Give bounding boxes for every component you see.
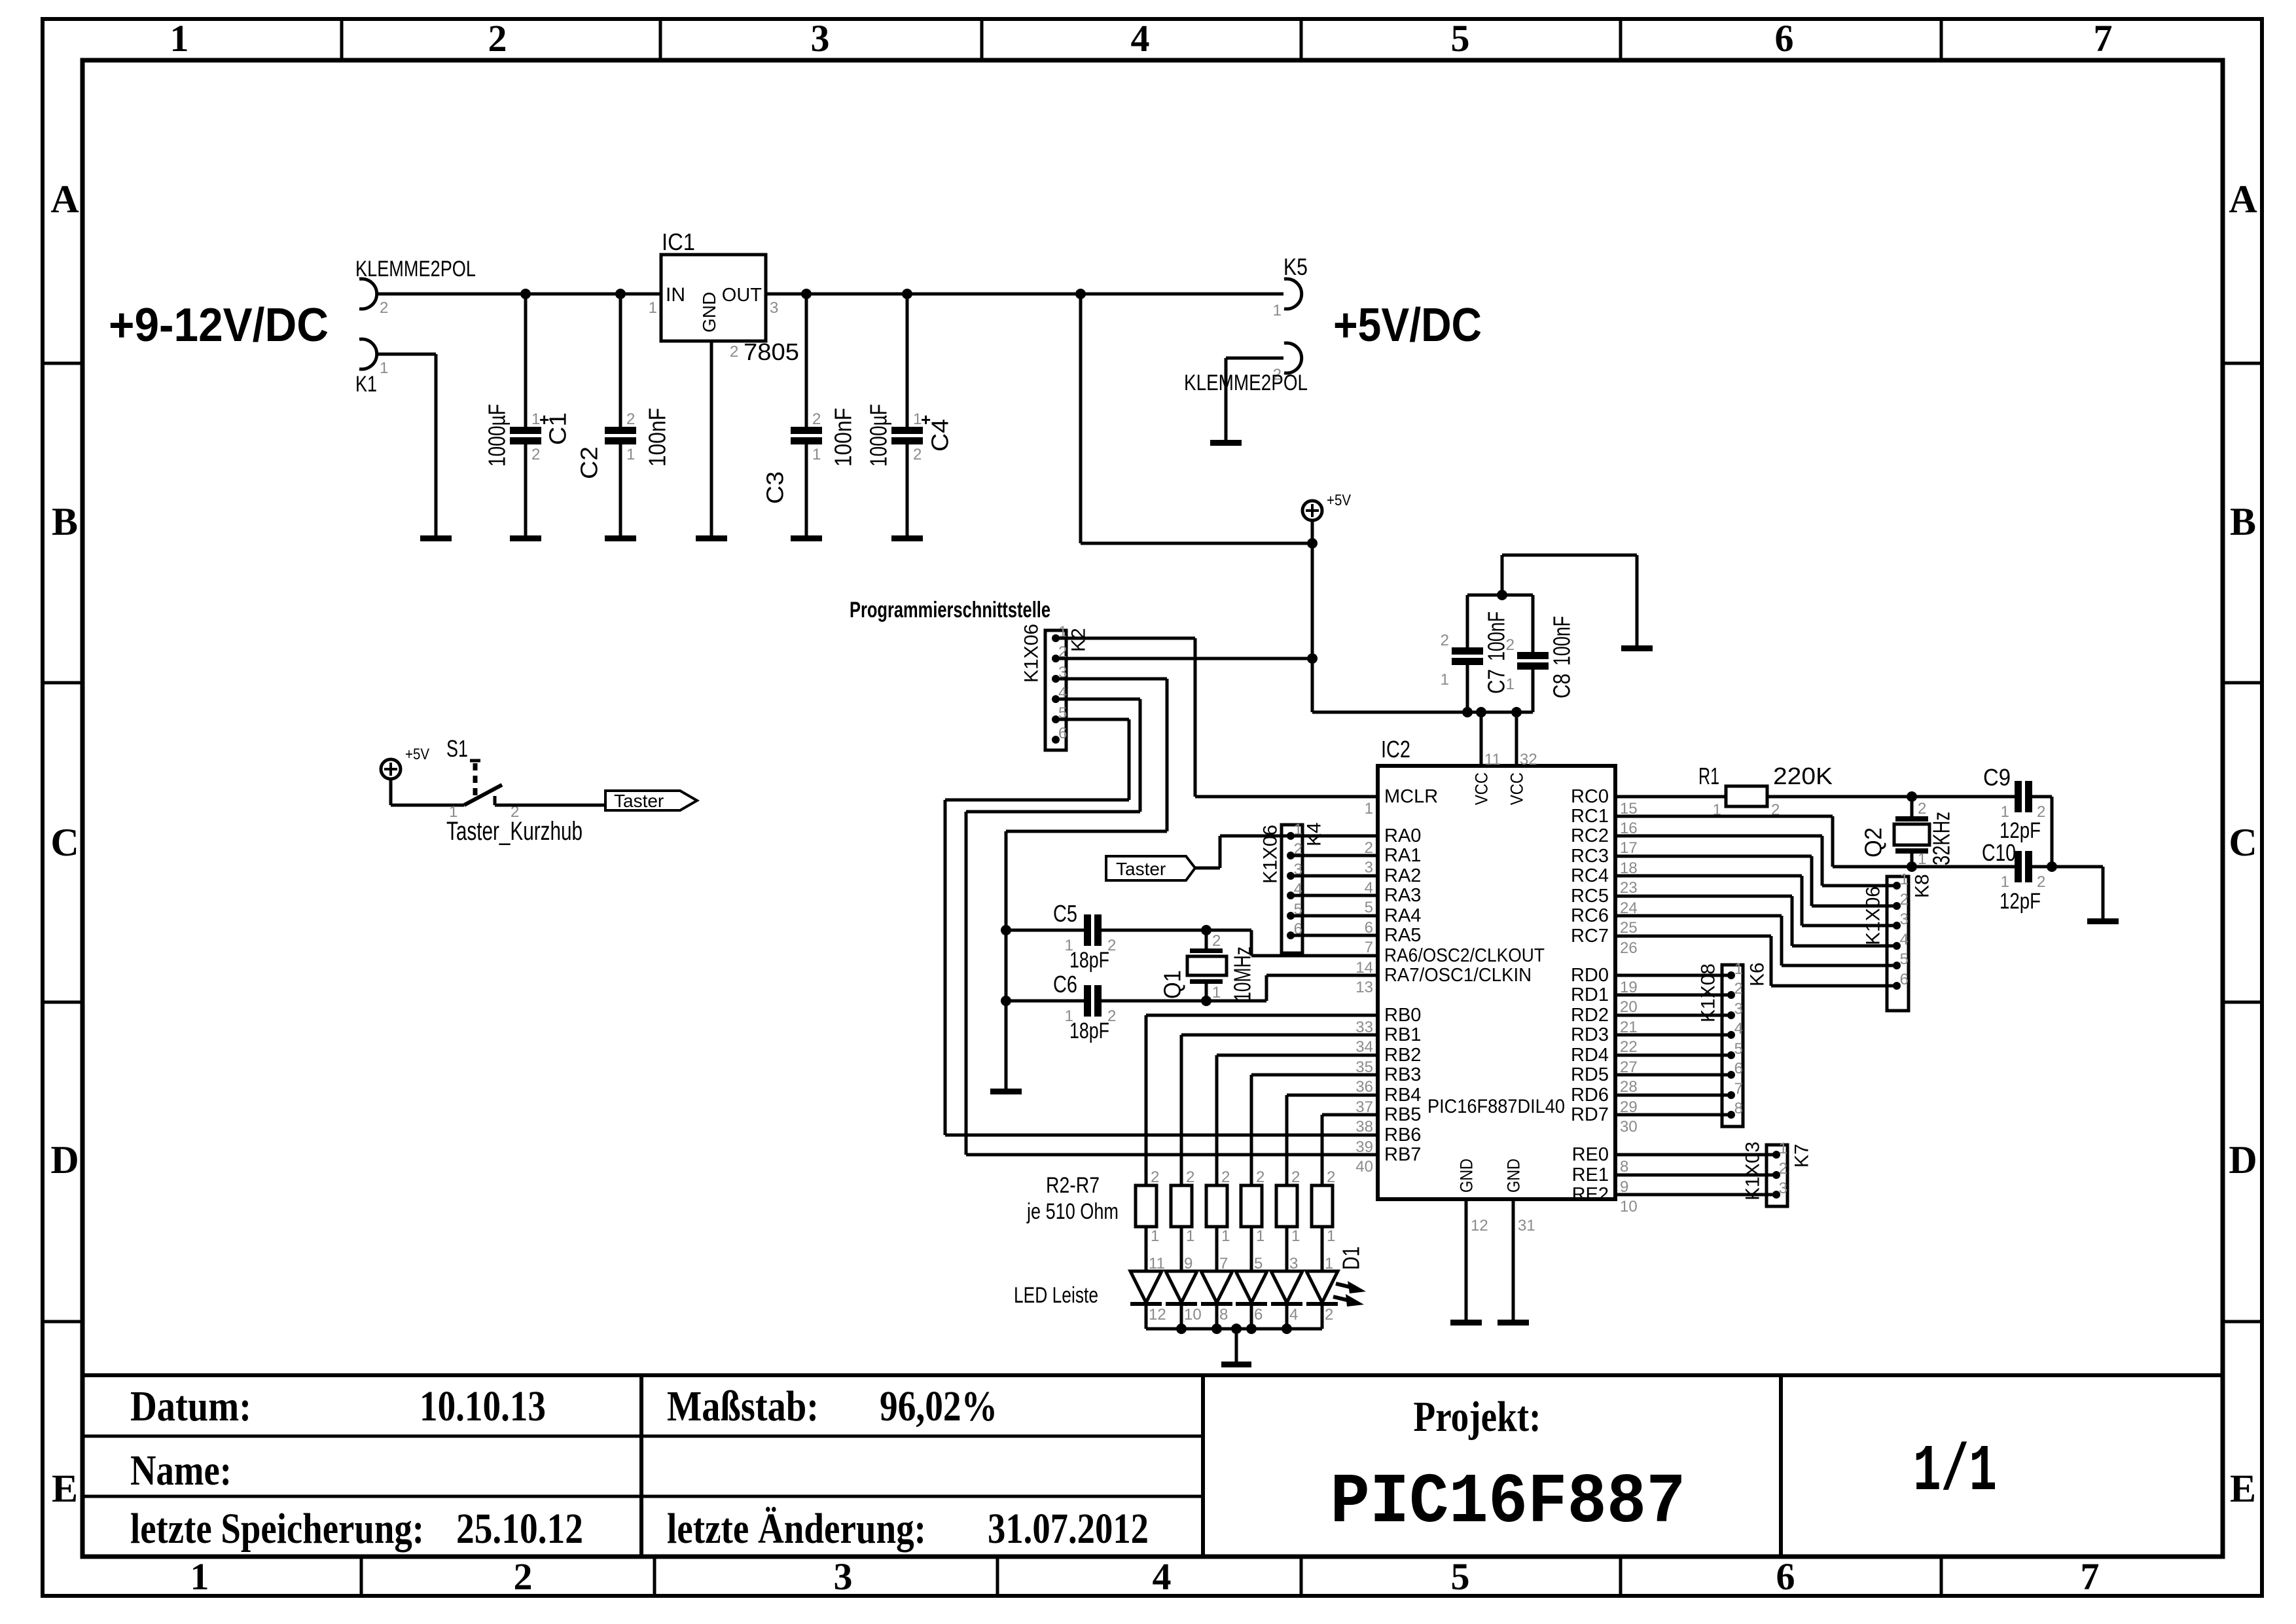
svg-text:D1: D1 xyxy=(1338,1246,1365,1270)
svg-text:MCLR: MCLR xyxy=(1384,786,1438,807)
pin number K8 5 xyxy=(1900,950,1909,968)
connector K1 KLEMME2POL pin 1 xyxy=(359,339,388,377)
wire IC2 GND pin 12 xyxy=(1465,1199,1468,1320)
pin number IC2 15 xyxy=(1620,800,1638,818)
svg-text:28: 28 xyxy=(1620,1078,1638,1096)
svg-text:3: 3 xyxy=(1779,1180,1787,1197)
label C10 xyxy=(1982,839,2016,866)
wire RD5 to K6 pin 6 xyxy=(1615,1074,1731,1077)
svg-text:RD0: RD0 xyxy=(1571,965,1609,986)
svg-text:RC2: RC2 xyxy=(1571,825,1609,846)
svg-text:+5V/DC: +5V/DC xyxy=(1333,299,1482,352)
pin number IC2 22 xyxy=(1620,1038,1638,1056)
svg-text:12pF: 12pF xyxy=(2000,889,2041,914)
svg-text:2: 2 xyxy=(531,446,540,463)
wire RB0 to resistor R2 xyxy=(1146,1015,1378,1185)
wire RD7 to K6 pin 8 xyxy=(1615,1113,1731,1117)
svg-text:C2: C2 xyxy=(576,446,603,479)
resistor R7 510 Ohm xyxy=(1312,1185,1333,1227)
svg-text:1: 1 xyxy=(1221,1227,1230,1245)
IC2 pin 8 RE0 label xyxy=(1572,1144,1609,1165)
svg-text:3: 3 xyxy=(834,1555,853,1598)
pin number D1 8 xyxy=(1219,1306,1228,1324)
IC2 pin 7 RA5 label xyxy=(1384,925,1421,946)
node C7 bottom xyxy=(1462,707,1473,717)
resistor R4 510 Ohm xyxy=(1206,1185,1227,1227)
svg-text:18pF: 18pF xyxy=(1069,948,1109,973)
svg-text:7: 7 xyxy=(2081,1555,2100,1598)
svg-text:2: 2 xyxy=(1151,1168,1159,1186)
IC2 pin 22 RD3 label xyxy=(1571,1024,1609,1045)
ground C3 xyxy=(791,535,822,541)
capacitor C8 100nF xyxy=(1506,595,1549,712)
svg-text:RB3: RB3 xyxy=(1384,1064,1421,1085)
IC2 pin 28 RD5 label xyxy=(1571,1064,1609,1085)
wire IC2 VCC pin 11 xyxy=(1480,712,1483,766)
IC2 pin 21 RD2 label xyxy=(1571,1005,1609,1026)
svg-text:C5: C5 xyxy=(1053,900,1077,927)
pin number IC2 29 xyxy=(1620,1098,1638,1116)
label je 510 Ohm xyxy=(1026,1199,1119,1224)
IC2 pin 1 MCLR label xyxy=(1384,786,1438,807)
IC2 VCC pin labels xyxy=(1471,772,1526,805)
wire RD6 to K6 pin 7 xyxy=(1615,1094,1731,1097)
capacitor C4 1000uF xyxy=(891,294,931,535)
svg-text:100nF: 100nF xyxy=(1549,616,1575,666)
pin number D1 12 xyxy=(1149,1306,1166,1324)
net flag Taster (S1) xyxy=(605,791,697,811)
svg-text:1000µF: 1000µF xyxy=(484,404,511,467)
svg-text:3: 3 xyxy=(1734,1000,1743,1018)
wire RB5 to resistor R7 xyxy=(1322,1115,1378,1185)
svg-text:14: 14 xyxy=(1355,959,1373,977)
svg-text:2: 2 xyxy=(1918,800,1926,818)
pin number R2 1 xyxy=(1151,1227,1159,1245)
pin number IC2 14 xyxy=(1355,959,1373,977)
capacitor C10 12pF xyxy=(2001,851,2052,891)
svg-text:6: 6 xyxy=(1775,17,1794,60)
label KLEMME2POL (K1) xyxy=(355,257,476,281)
pin number IC2 40 xyxy=(1355,1158,1373,1176)
capacitor C5 18pF xyxy=(1006,914,1251,954)
LED D1 element 4 xyxy=(1236,1271,1267,1329)
pin number IC2 19 xyxy=(1620,979,1638,996)
wire RC4 to K8 pin 3 xyxy=(1615,876,1897,926)
pin number K7 3 xyxy=(1779,1180,1787,1197)
IC2 pin 37 RB4 label xyxy=(1384,1085,1421,1106)
svg-text:C9: C9 xyxy=(1983,764,2011,791)
pin number D1 2 xyxy=(1325,1306,1333,1324)
wire RE1 to K7 pin 2 xyxy=(1615,1174,1776,1177)
svg-text:K5: K5 xyxy=(1283,253,1308,280)
pin number K8 1 xyxy=(1900,871,1909,888)
svg-text:Name:: Name: xyxy=(130,1447,232,1494)
wire C6 net to RA7 xyxy=(1266,975,1378,1001)
svg-text:RB5: RB5 xyxy=(1384,1104,1421,1125)
svg-text:S1: S1 xyxy=(446,735,468,762)
pin number R3 2 xyxy=(1186,1168,1194,1186)
svg-text:1: 1 xyxy=(649,299,657,317)
pin number IC2 12 xyxy=(1471,1217,1488,1235)
node C6 rail xyxy=(1001,996,1011,1006)
svg-text:Projekt:: Projekt: xyxy=(1414,1393,1541,1441)
pin number R2 2 xyxy=(1151,1168,1159,1186)
svg-text:4: 4 xyxy=(1900,931,1909,948)
ground C9 C10 xyxy=(2087,918,2119,924)
wire RC3 to K8 pin 2 xyxy=(1615,856,1897,906)
svg-text:1: 1 xyxy=(1186,1227,1194,1245)
resistor R5 510 Ohm xyxy=(1241,1185,1262,1227)
pin number K2 6 xyxy=(1058,725,1067,742)
svg-text:C8: C8 xyxy=(1549,674,1575,698)
pin number IC2 20 xyxy=(1620,998,1638,1016)
border row dividers left xyxy=(43,363,82,1322)
svg-text:1: 1 xyxy=(1325,1255,1333,1272)
wire Taster flag to K4 pin1 xyxy=(1195,836,1291,868)
svg-text:7805: 7805 xyxy=(744,338,799,365)
wire K2 pin3 to C5 C6 ground rail xyxy=(1006,679,1167,831)
wire R5 to LED 4 xyxy=(1250,1227,1253,1271)
svg-text:31: 31 xyxy=(1518,1217,1535,1235)
svg-text:7: 7 xyxy=(1219,1255,1228,1272)
label R2-R7 xyxy=(1046,1173,1100,1198)
resistor R6 510 Ohm xyxy=(1276,1185,1297,1227)
svg-text:RD6: RD6 xyxy=(1571,1085,1609,1106)
pin number IC2 33 xyxy=(1355,1019,1373,1036)
pin number K7 2 xyxy=(1779,1160,1787,1178)
svg-text:2: 2 xyxy=(1441,632,1449,649)
svg-text:VCC: VCC xyxy=(1507,772,1526,805)
svg-text:2: 2 xyxy=(380,299,388,317)
node LED bus 1966 xyxy=(1282,1324,1292,1334)
svg-text:10.10.13: 10.10.13 xyxy=(420,1382,546,1430)
title block grid xyxy=(82,1375,2223,1557)
svg-text:2: 2 xyxy=(812,410,821,428)
svg-text:7: 7 xyxy=(2094,17,2113,60)
IC2 pin 39 RB6 label xyxy=(1384,1125,1421,1146)
title field Projekt xyxy=(1414,1393,1541,1441)
svg-text:R1: R1 xyxy=(1698,763,1719,789)
connector K6 K1X08 xyxy=(1722,965,1743,1127)
wire R3 to LED 2 xyxy=(1180,1227,1183,1271)
pin number D1 7 xyxy=(1219,1255,1228,1272)
svg-text:RA1: RA1 xyxy=(1384,845,1421,866)
wire C5 net to RA6 xyxy=(1251,930,1378,956)
svg-text:30: 30 xyxy=(1620,1118,1638,1136)
pin number D1 1 xyxy=(1325,1255,1333,1272)
node VCC pin11 tap xyxy=(1476,707,1486,717)
svg-text:1: 1 xyxy=(380,359,388,377)
ground IC2 pin 12 xyxy=(1450,1320,1482,1326)
label K5 xyxy=(1283,253,1308,280)
pin number IC2 21 xyxy=(1620,1019,1638,1036)
svg-text:13: 13 xyxy=(1355,979,1373,996)
svg-text:C4: C4 xyxy=(927,419,954,452)
label Q1 xyxy=(1159,970,1186,999)
pin number IC2 32 xyxy=(1520,751,1537,768)
pin number K6 4 xyxy=(1734,1020,1743,1038)
svg-text:20: 20 xyxy=(1620,998,1638,1016)
label C10 value 12pF xyxy=(2000,889,2041,914)
pin number D1 11 xyxy=(1149,1255,1165,1272)
svg-text:K2: K2 xyxy=(1068,628,1090,652)
label KLEMME2POL (K5) xyxy=(1184,370,1308,395)
svg-text:RE0: RE0 xyxy=(1572,1144,1609,1165)
svg-text:3: 3 xyxy=(1900,911,1909,928)
ground C5 C6 rail xyxy=(990,1089,1022,1094)
pin number K4 5 xyxy=(1294,901,1302,918)
svg-text:5: 5 xyxy=(1900,950,1909,968)
label +5V (top symbol) xyxy=(1327,492,1351,509)
label R1 value 220K xyxy=(1773,763,1833,789)
wire ground rail C5 C6 xyxy=(1005,831,1008,1089)
capacitor C9 12pF xyxy=(1996,781,2052,821)
label K1X06 (K4) xyxy=(1260,825,1282,884)
node Q2 top xyxy=(1907,791,1917,802)
svg-text:1/1: 1/1 xyxy=(1913,1435,1997,1509)
svg-text:17: 17 xyxy=(1620,839,1638,857)
pin number K4 3 xyxy=(1294,861,1302,878)
svg-text:K1X06: K1X06 xyxy=(1863,886,1884,945)
svg-text:31.07.2012: 31.07.2012 xyxy=(988,1505,1149,1553)
svg-text:7: 7 xyxy=(1734,1080,1743,1098)
svg-text:Taster_Kurzhub: Taster_Kurzhub xyxy=(446,817,583,846)
IC2 pin 34 RB1 label xyxy=(1384,1024,1421,1045)
pin number K6 5 xyxy=(1734,1040,1743,1058)
connector K1 KLEMME2POL pin 2 xyxy=(359,279,388,317)
title field Massstab xyxy=(667,1382,997,1430)
svg-text:39: 39 xyxy=(1355,1138,1373,1156)
label +5V (S1) xyxy=(405,746,429,763)
pin number IC1 2 xyxy=(730,343,738,361)
label +9-12V/DC input voltage xyxy=(109,299,329,352)
svg-text:K8: K8 xyxy=(1912,874,1933,898)
svg-text:RB2: RB2 xyxy=(1384,1045,1421,1066)
pin number K2 3 xyxy=(1058,664,1067,681)
svg-text:4: 4 xyxy=(1289,1306,1298,1324)
IC2 pin 4 RA2 label xyxy=(1384,865,1421,886)
wire RB4 to resistor R6 xyxy=(1287,1095,1378,1185)
node junction C3 top xyxy=(801,289,812,299)
IC2 pin 35 RB2 label xyxy=(1384,1045,1421,1066)
svg-text:RC1: RC1 xyxy=(1571,806,1609,827)
wire RB1 to resistor R3 xyxy=(1181,1035,1378,1185)
pin number R1 2 xyxy=(1771,801,1780,819)
label C3 xyxy=(762,471,789,504)
ground K5 pin2 xyxy=(1210,440,1242,446)
border column numbers top xyxy=(170,17,2113,60)
svg-text:6: 6 xyxy=(1365,919,1373,937)
label C7 xyxy=(1483,669,1510,694)
svg-text:1: 1 xyxy=(1734,960,1743,978)
ground C2 xyxy=(605,535,636,541)
svg-text:5: 5 xyxy=(1254,1255,1263,1272)
pin number R4 2 xyxy=(1221,1168,1230,1186)
pin number IC2 39 xyxy=(1355,1138,1373,1156)
node LED bus 1859 xyxy=(1211,1324,1222,1334)
wire RD3 to K6 pin 4 xyxy=(1615,1034,1731,1037)
svg-text:B: B xyxy=(2230,500,2256,543)
node K2 pin2 tap xyxy=(1307,653,1318,664)
pin number IC2 10 xyxy=(1620,1198,1638,1216)
pin number IC2 8 xyxy=(1620,1158,1628,1176)
svg-text:IN: IN xyxy=(666,284,685,306)
pin number K8 2 xyxy=(1900,891,1909,909)
label Taster_Kurzhub xyxy=(446,817,583,846)
pin number IC1 1 xyxy=(649,299,657,317)
svg-text:RA2: RA2 xyxy=(1384,865,1421,886)
svg-text:11: 11 xyxy=(1149,1255,1165,1272)
wire +5V to S1 pin1 xyxy=(391,779,464,805)
svg-text:2: 2 xyxy=(1506,636,1515,654)
svg-text:18pF: 18pF xyxy=(1069,1019,1109,1043)
svg-text:2: 2 xyxy=(1212,932,1221,950)
label K1X03 (K7) xyxy=(1742,1142,1764,1200)
svg-text:3: 3 xyxy=(811,17,830,60)
svg-text:R2-R7: R2-R7 xyxy=(1046,1173,1100,1198)
pin number IC2 26 xyxy=(1620,939,1638,957)
pin number D1 3 xyxy=(1289,1255,1298,1272)
label Q2 value 32KHz xyxy=(1928,812,1955,865)
pin number IC2 28 xyxy=(1620,1078,1638,1096)
wire K2 pin5 to RB6 xyxy=(945,719,1378,1135)
label C8 xyxy=(1549,674,1575,698)
microcontroller IC2 PIC16F887DIL40 xyxy=(1378,766,1615,1199)
pin number IC2 16 xyxy=(1620,820,1638,837)
wire RD0 to K6 pin 1 xyxy=(1615,974,1731,977)
IC2 pin 36 RB3 label xyxy=(1384,1064,1421,1085)
label C6 xyxy=(1053,971,1077,998)
title sheet number 1/1 xyxy=(1913,1435,1997,1509)
wire RC2 to K8 pin 1 xyxy=(1615,836,1897,886)
IC2 pin 23 RC4 label xyxy=(1571,865,1609,886)
svg-text:Q1: Q1 xyxy=(1159,970,1186,999)
ground IC2 pin 31 xyxy=(1498,1320,1529,1326)
capacitor C3 100nF xyxy=(791,294,822,535)
svg-text:RA0: RA0 xyxy=(1384,825,1421,846)
wire C7 C8 top rail to ground xyxy=(1467,555,1637,645)
label C5 value 18pF xyxy=(1069,948,1109,973)
svg-text:32: 32 xyxy=(1520,751,1537,768)
pin number R6 1 xyxy=(1291,1227,1300,1245)
svg-text:2: 2 xyxy=(1221,1168,1230,1186)
pin number IC2 31 xyxy=(1518,1217,1535,1235)
svg-text:RC0: RC0 xyxy=(1571,786,1609,807)
node C7 C8 rail xyxy=(1497,590,1507,600)
wire K5 pin2 to ground xyxy=(1226,358,1283,440)
connector K5 KLEMME2POL pin 1 xyxy=(1273,279,1302,319)
svg-text:2: 2 xyxy=(2037,873,2045,891)
label K1X06 (K8) xyxy=(1863,886,1884,945)
svg-text:IC1: IC1 xyxy=(662,228,695,255)
svg-text:6: 6 xyxy=(1776,1555,1795,1598)
pin number D1 5 xyxy=(1254,1255,1263,1272)
svg-text:RC6: RC6 xyxy=(1571,905,1609,926)
svg-text:6: 6 xyxy=(1254,1306,1263,1324)
label 7805 xyxy=(744,338,799,365)
IC2 pin 17 RC2 label xyxy=(1571,825,1609,846)
wire IC1 OUT to K5 xyxy=(766,293,1283,296)
wire RC7 to K8 pin 6 xyxy=(1615,936,1897,986)
pin number R3 1 xyxy=(1186,1227,1194,1245)
pin number IC2 13 xyxy=(1355,979,1373,996)
wires K4 pins to RA0-RA5 xyxy=(1291,836,1378,935)
wire RC6 to K8 pin 5 xyxy=(1615,916,1897,965)
svg-text:VCC: VCC xyxy=(1471,772,1491,805)
svg-text:D: D xyxy=(50,1138,79,1182)
svg-text:100nF: 100nF xyxy=(644,408,671,467)
LED D1 element 3 xyxy=(1201,1271,1232,1329)
svg-text:6: 6 xyxy=(1058,725,1067,742)
pin number IC1 3 xyxy=(770,299,778,317)
svg-text:letzte Änderung:: letzte Änderung: xyxy=(667,1505,926,1553)
svg-text:RB4: RB4 xyxy=(1384,1085,1421,1106)
svg-text:4: 4 xyxy=(1153,1555,1172,1598)
svg-text:2: 2 xyxy=(1365,839,1373,857)
svg-text:K1X03: K1X03 xyxy=(1742,1142,1764,1200)
label K2 xyxy=(1068,628,1090,652)
label K1X08 (K6) xyxy=(1698,964,1719,1022)
pin number K6 3 xyxy=(1734,1000,1743,1018)
wire IC2 VCC pin 32 xyxy=(1515,712,1518,766)
node Q2 bottom xyxy=(1907,861,1917,872)
svg-text:2: 2 xyxy=(1256,1168,1265,1186)
label C1 xyxy=(545,412,571,445)
label S1 xyxy=(446,735,468,762)
svg-text:12: 12 xyxy=(1471,1217,1488,1235)
svg-text:1: 1 xyxy=(1256,1227,1265,1245)
svg-text:A: A xyxy=(50,177,79,221)
pin number IC2 4 xyxy=(1365,879,1373,897)
title field letzte Aenderung xyxy=(667,1505,1149,1553)
IC2 pin 13 RA7/OSC1/CLKIN label xyxy=(1384,965,1532,986)
wire +5V rail down to VCC bus xyxy=(1312,543,1533,712)
pin number IC2 36 xyxy=(1355,1078,1373,1096)
border column dividers bottom xyxy=(361,1557,1941,1596)
label K6 xyxy=(1747,962,1768,986)
svg-text:je 510 Ohm: je 510 Ohm xyxy=(1026,1199,1119,1224)
title field letzte Speicherung xyxy=(130,1505,583,1553)
svg-text:RD5: RD5 xyxy=(1571,1064,1609,1085)
border row dividers right xyxy=(2223,363,2262,1322)
IC2 pin 14 RA6/OSC2/CLKOUT label xyxy=(1384,945,1545,966)
svg-text:K1X06: K1X06 xyxy=(1021,624,1043,683)
connector K8 K1X06 xyxy=(1887,876,1909,1011)
node junction C4 top xyxy=(902,289,912,299)
svg-text:3: 3 xyxy=(770,299,778,317)
IC2 pin 38 RB5 label xyxy=(1384,1104,1421,1125)
svg-text:22: 22 xyxy=(1620,1038,1638,1056)
IC2 pin 20 RD1 label xyxy=(1571,984,1609,1005)
svg-text:1: 1 xyxy=(1365,800,1373,818)
svg-text:IC2: IC2 xyxy=(1381,736,1410,763)
svg-text:2: 2 xyxy=(1734,980,1743,998)
label K8 xyxy=(1912,874,1933,898)
label Programmierschnittstelle xyxy=(850,598,1050,623)
pin number D1 9 xyxy=(1184,1255,1193,1272)
svg-text:E: E xyxy=(2230,1467,2256,1510)
capacitor C6 18pF xyxy=(1006,985,1266,1025)
pin number IC2 30 xyxy=(1620,1118,1638,1136)
node C5 rail xyxy=(1001,925,1011,935)
svg-text:5: 5 xyxy=(1451,17,1470,60)
capacitor C7 100nF xyxy=(1441,595,1483,712)
svg-text:5: 5 xyxy=(1365,899,1373,916)
border row letters left xyxy=(50,177,79,1510)
IC2 pin 3 RA1 label xyxy=(1384,845,1421,866)
svg-text:RD4: RD4 xyxy=(1571,1045,1609,1066)
IC2 pin 40 RB7 label xyxy=(1384,1144,1421,1165)
